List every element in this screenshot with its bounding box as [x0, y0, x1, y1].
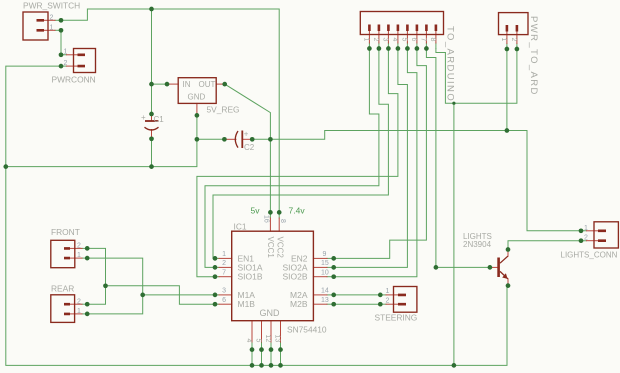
svg-text:REAR: REAR — [51, 284, 74, 294]
junction FRONT and REAR pin ends — [85, 246, 90, 316]
svg-text:2: 2 — [50, 15, 54, 22]
svg-text:16: 16 — [263, 215, 270, 223]
svg-text:4: 4 — [391, 38, 398, 42]
svg-text:2: 2 — [222, 260, 226, 267]
svg-text:C2: C2 — [244, 143, 255, 152]
junction VCC1 VCC2 pin ends — [268, 210, 282, 215]
connector PWRCONN — [74, 49, 96, 73]
wire stubs green pin tips — [55, 20, 517, 314]
junction top rail / C1 column — [149, 7, 154, 12]
wire SIO1A net — [205, 49, 379, 268]
svg-text:VCC1: VCC1 — [266, 237, 275, 259]
junction PWR_TO_ARD pin ends — [505, 47, 520, 52]
svg-text:1: 1 — [363, 38, 370, 42]
svg-text:6: 6 — [410, 38, 417, 42]
wire M2A net to STEERING pin1 — [334, 294, 381, 296]
svg-text:4: 4 — [245, 339, 252, 343]
wire PWR_SWITCH pin1 to PWRCONN pin1 — [61, 30, 67, 55]
svg-text:SIO1B: SIO1B — [238, 272, 263, 282]
junction C1 pin ends — [149, 112, 154, 141]
svg-text:LIGHTS_CONN: LIGHTS_CONN — [561, 251, 618, 260]
svg-text:2: 2 — [77, 298, 81, 305]
svg-text:+: + — [244, 130, 249, 139]
wire SIO2A net — [334, 49, 408, 268]
svg-text:5: 5 — [255, 339, 262, 343]
capacitor C2 — [235, 131, 242, 149]
svg-text:GND: GND — [260, 308, 281, 318]
svg-text:7.4v: 7.4v — [289, 206, 306, 216]
svg-text:IC1: IC1 — [234, 222, 247, 232]
connector FRONT — [51, 240, 75, 267]
svg-text:5v: 5v — [251, 206, 261, 216]
svg-text:SN754410: SN754410 — [287, 325, 327, 335]
junction C2 pin ends and 5v rail tee — [222, 137, 273, 142]
svg-text:2: 2 — [77, 242, 81, 249]
junction 5v rail to PWR_TO_ARD pin1 — [505, 128, 510, 133]
junction transistor base wire — [434, 265, 493, 270]
svg-text:VCC2: VCC2 — [276, 237, 285, 259]
svg-text:2N3904: 2N3904 — [463, 240, 492, 249]
junction TO_ARDUINO pin ends 1-7 — [367, 46, 429, 51]
junction 5V_REG IN branch and pin ends — [149, 82, 227, 87]
svg-text:3: 3 — [222, 288, 226, 295]
svg-text:9: 9 — [323, 251, 327, 258]
svg-text:6: 6 — [222, 297, 226, 304]
svg-text:GND: GND — [188, 93, 206, 102]
svg-text:1: 1 — [77, 252, 81, 259]
wire SIO1B net — [197, 49, 398, 277]
svg-text:10: 10 — [321, 270, 329, 277]
wire M1A net (FRONT/REAR pin1 to M1A) — [87, 258, 215, 314]
svg-text:1: 1 — [77, 308, 81, 315]
junction IC1 right pin ends — [331, 256, 336, 307]
junction PWR_SWITCH pins — [59, 18, 64, 33]
svg-text:1: 1 — [222, 251, 226, 258]
svg-text:2: 2 — [372, 38, 379, 42]
svg-text:13: 13 — [321, 297, 329, 304]
wire M1B net (FRONT/REAR pin2 to M1B) — [87, 248, 215, 304]
connector REAR — [51, 295, 75, 323]
svg-text:PWRCONN: PWRCONN — [52, 75, 96, 85]
pin stubs (red) for all components — [44, 20, 598, 342]
svg-text:2: 2 — [386, 297, 390, 304]
wire EN2 net — [334, 49, 427, 259]
wire GND net — [6, 49, 517, 366]
connector PWR_SWITCH — [23, 12, 48, 40]
svg-text:2: 2 — [584, 235, 588, 242]
IC U1 SN754410 motor driver — [232, 231, 314, 321]
svg-text:M2B: M2B — [290, 299, 308, 309]
svg-text:M1B: M1B — [238, 299, 256, 309]
junction 5V_REG GND pin end and GND/C2 tee — [195, 113, 200, 142]
svg-text:FRONT: FRONT — [51, 227, 80, 237]
svg-text:7: 7 — [222, 270, 226, 277]
svg-text:IN: IN — [183, 80, 191, 89]
junction PWRCONN pins — [59, 52, 64, 68]
svg-text:SIO2B: SIO2B — [282, 272, 307, 282]
svg-text:OUT: OUT — [199, 80, 216, 89]
svg-text:5: 5 — [401, 38, 408, 42]
svg-text:1: 1 — [386, 288, 390, 295]
junction GND rail at IC1 GND pins — [250, 363, 283, 368]
junction STEERING pin ends — [378, 293, 383, 307]
wire collector to LIGHTS_CONN pin2 — [508, 241, 587, 250]
svg-text:7: 7 — [420, 38, 427, 42]
svg-text:PWR_SWITCH: PWR_SWITCH — [23, 1, 80, 11]
svg-text:8: 8 — [279, 219, 286, 223]
svg-text:1: 1 — [50, 25, 54, 32]
pin numbers TO_ARDUINO 1-8 (rotated) — [363, 38, 437, 42]
junction LIGHTS_CONN pin ends — [579, 228, 584, 243]
svg-text:STEERING: STEERING — [375, 313, 418, 323]
junction GND column tee and GND rail tee — [452, 102, 457, 368]
svg-text:5V_REG: 5V_REG — [207, 105, 240, 115]
junction motor net tees — [103, 283, 145, 297]
svg-text:PWR_TO_ARD: PWR_TO_ARD — [528, 16, 539, 96]
wire M2B net to STEERING pin2 — [334, 303, 381, 305]
capacitor C1 — [145, 121, 159, 130]
connector TO_ARDUINO — [360, 12, 443, 35]
svg-text:3: 3 — [382, 38, 389, 42]
svg-text:15: 15 — [321, 260, 329, 267]
svg-text:14: 14 — [321, 288, 329, 295]
svg-text:2: 2 — [510, 38, 517, 42]
svg-text:12: 12 — [264, 335, 271, 343]
wire 7.4V battery net — [61, 9, 279, 212]
junction IC1 left pin ends — [213, 256, 218, 307]
connector LIGHTS_CONN — [594, 222, 618, 248]
junction GND rail branch — [3, 164, 153, 169]
svg-text:1: 1 — [64, 49, 68, 56]
svg-text:C1: C1 — [154, 115, 165, 124]
svg-text:1: 1 — [584, 225, 588, 232]
connector STEERING — [394, 287, 417, 313]
IC GND pin numbers 4,5,12,13 (rotated) — [245, 335, 281, 343]
svg-text:2: 2 — [64, 60, 68, 67]
svg-text:13: 13 — [274, 335, 281, 343]
junction transistor collector and emitter pin ends — [506, 247, 511, 288]
voltage regulator 5V_REG — [178, 78, 216, 104]
wire SIO2B net — [334, 49, 417, 277]
svg-text:TO_ARDUINO: TO_ARDUINO — [444, 26, 455, 102]
wire EN1 net — [213, 49, 388, 259]
junction IC1 GND pin ends — [250, 347, 283, 352]
pin numbers PWR_TO_ARD 1-2 (rotated) — [500, 38, 517, 42]
wire LIGHTS base net — [426, 49, 490, 268]
connector PWR_TO_ARD — [499, 13, 529, 35]
svg-text:1: 1 — [500, 38, 507, 42]
wire 5V net — [225, 49, 587, 231]
svg-text:8: 8 — [429, 38, 436, 42]
svg-text:+: + — [141, 113, 146, 122]
transistor Q1 LIGHTS 2N3904 — [497, 256, 508, 279]
